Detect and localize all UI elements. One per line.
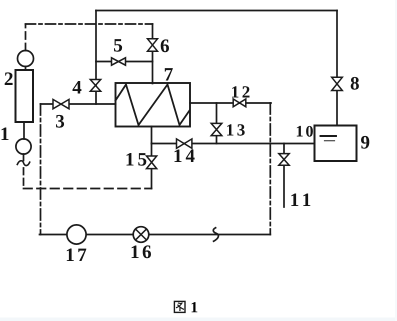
pump 17 [67, 225, 86, 244]
label 3 [56, 115, 64, 128]
heat exchanger 7 zigzag coil [116, 85, 190, 126]
valve 16 cross [136, 229, 147, 240]
valve 3 [53, 99, 69, 108]
heat exchanger 7 body [116, 83, 191, 127]
valve 5 [112, 58, 126, 65]
wire exchanger bottom stub [151, 127, 153, 144]
wire mid horizontal line to tank [152, 143, 315, 145]
label 1 [2, 128, 9, 141]
caption 图 1 [174, 301, 197, 312]
valve 13 [211, 123, 222, 135]
wire top main line [96, 10, 337, 12]
tilde mark below compressor 1 [17, 161, 29, 166]
valve 15 [147, 156, 157, 169]
pipe break mark [213, 228, 218, 241]
tank 9 body [315, 126, 357, 162]
label 4 [73, 81, 82, 94]
wire right drop to tank [336, 11, 338, 126]
label 17 [67, 249, 87, 262]
valve 12 [233, 99, 246, 107]
label 10 [297, 126, 313, 137]
label 13 [227, 124, 245, 136]
wire left vertical through valves 5-tee and 4 [95, 11, 97, 105]
wire left pipe to exchanger [41, 103, 116, 105]
component 2 top circle [18, 51, 34, 67]
label 15 [127, 153, 147, 166]
valve 6 [148, 39, 158, 51]
label 11 [291, 194, 310, 207]
wire valve-13 branch [216, 103, 218, 144]
label 5 [114, 39, 122, 52]
wire column to compressor 1 [23, 122, 25, 139]
label 14 [175, 150, 195, 163]
label 6 [161, 39, 169, 52]
label 2 [5, 72, 13, 85]
wire valve-11 drop [283, 144, 285, 208]
wire dash-dot left vertical [40, 104, 42, 235]
wire dash-dot right vertical [269, 103, 271, 235]
wire bottom return line [40, 234, 271, 236]
component 2 column rectangle [16, 70, 34, 122]
wire dashed below compressor 1 [23, 168, 25, 189]
wire dash-dot top-left riser [25, 24, 27, 50]
level mark 10 lower line [325, 140, 335, 142]
label 12 [232, 86, 249, 97]
label 8 [351, 77, 359, 90]
valve 8 [332, 77, 343, 90]
wire dashed bottom horizontal [24, 188, 152, 190]
wire stub circle to column [25, 67, 27, 71]
valve 11 [279, 154, 289, 166]
page edge tint right [395, 0, 397, 321]
level mark 10 main line [321, 135, 337, 137]
label 7 [165, 68, 173, 80]
wire below compressor 1 [23, 154, 25, 161]
valve 4 [90, 80, 100, 92]
wire valve-15 drop [151, 144, 153, 189]
page edge tint bottom [0, 318, 397, 321]
valve 16 body [133, 227, 149, 243]
valve 14 [177, 139, 192, 148]
wire valve-5 branch [96, 61, 153, 63]
wire exchanger right pipe [190, 102, 271, 104]
wire valve-6 drop to exchanger top [152, 24, 154, 84]
label 16 [132, 245, 151, 258]
compressor 1 circle [16, 139, 31, 154]
wire dash-dot top-left horizontal [26, 23, 153, 25]
label 9 [361, 136, 369, 149]
